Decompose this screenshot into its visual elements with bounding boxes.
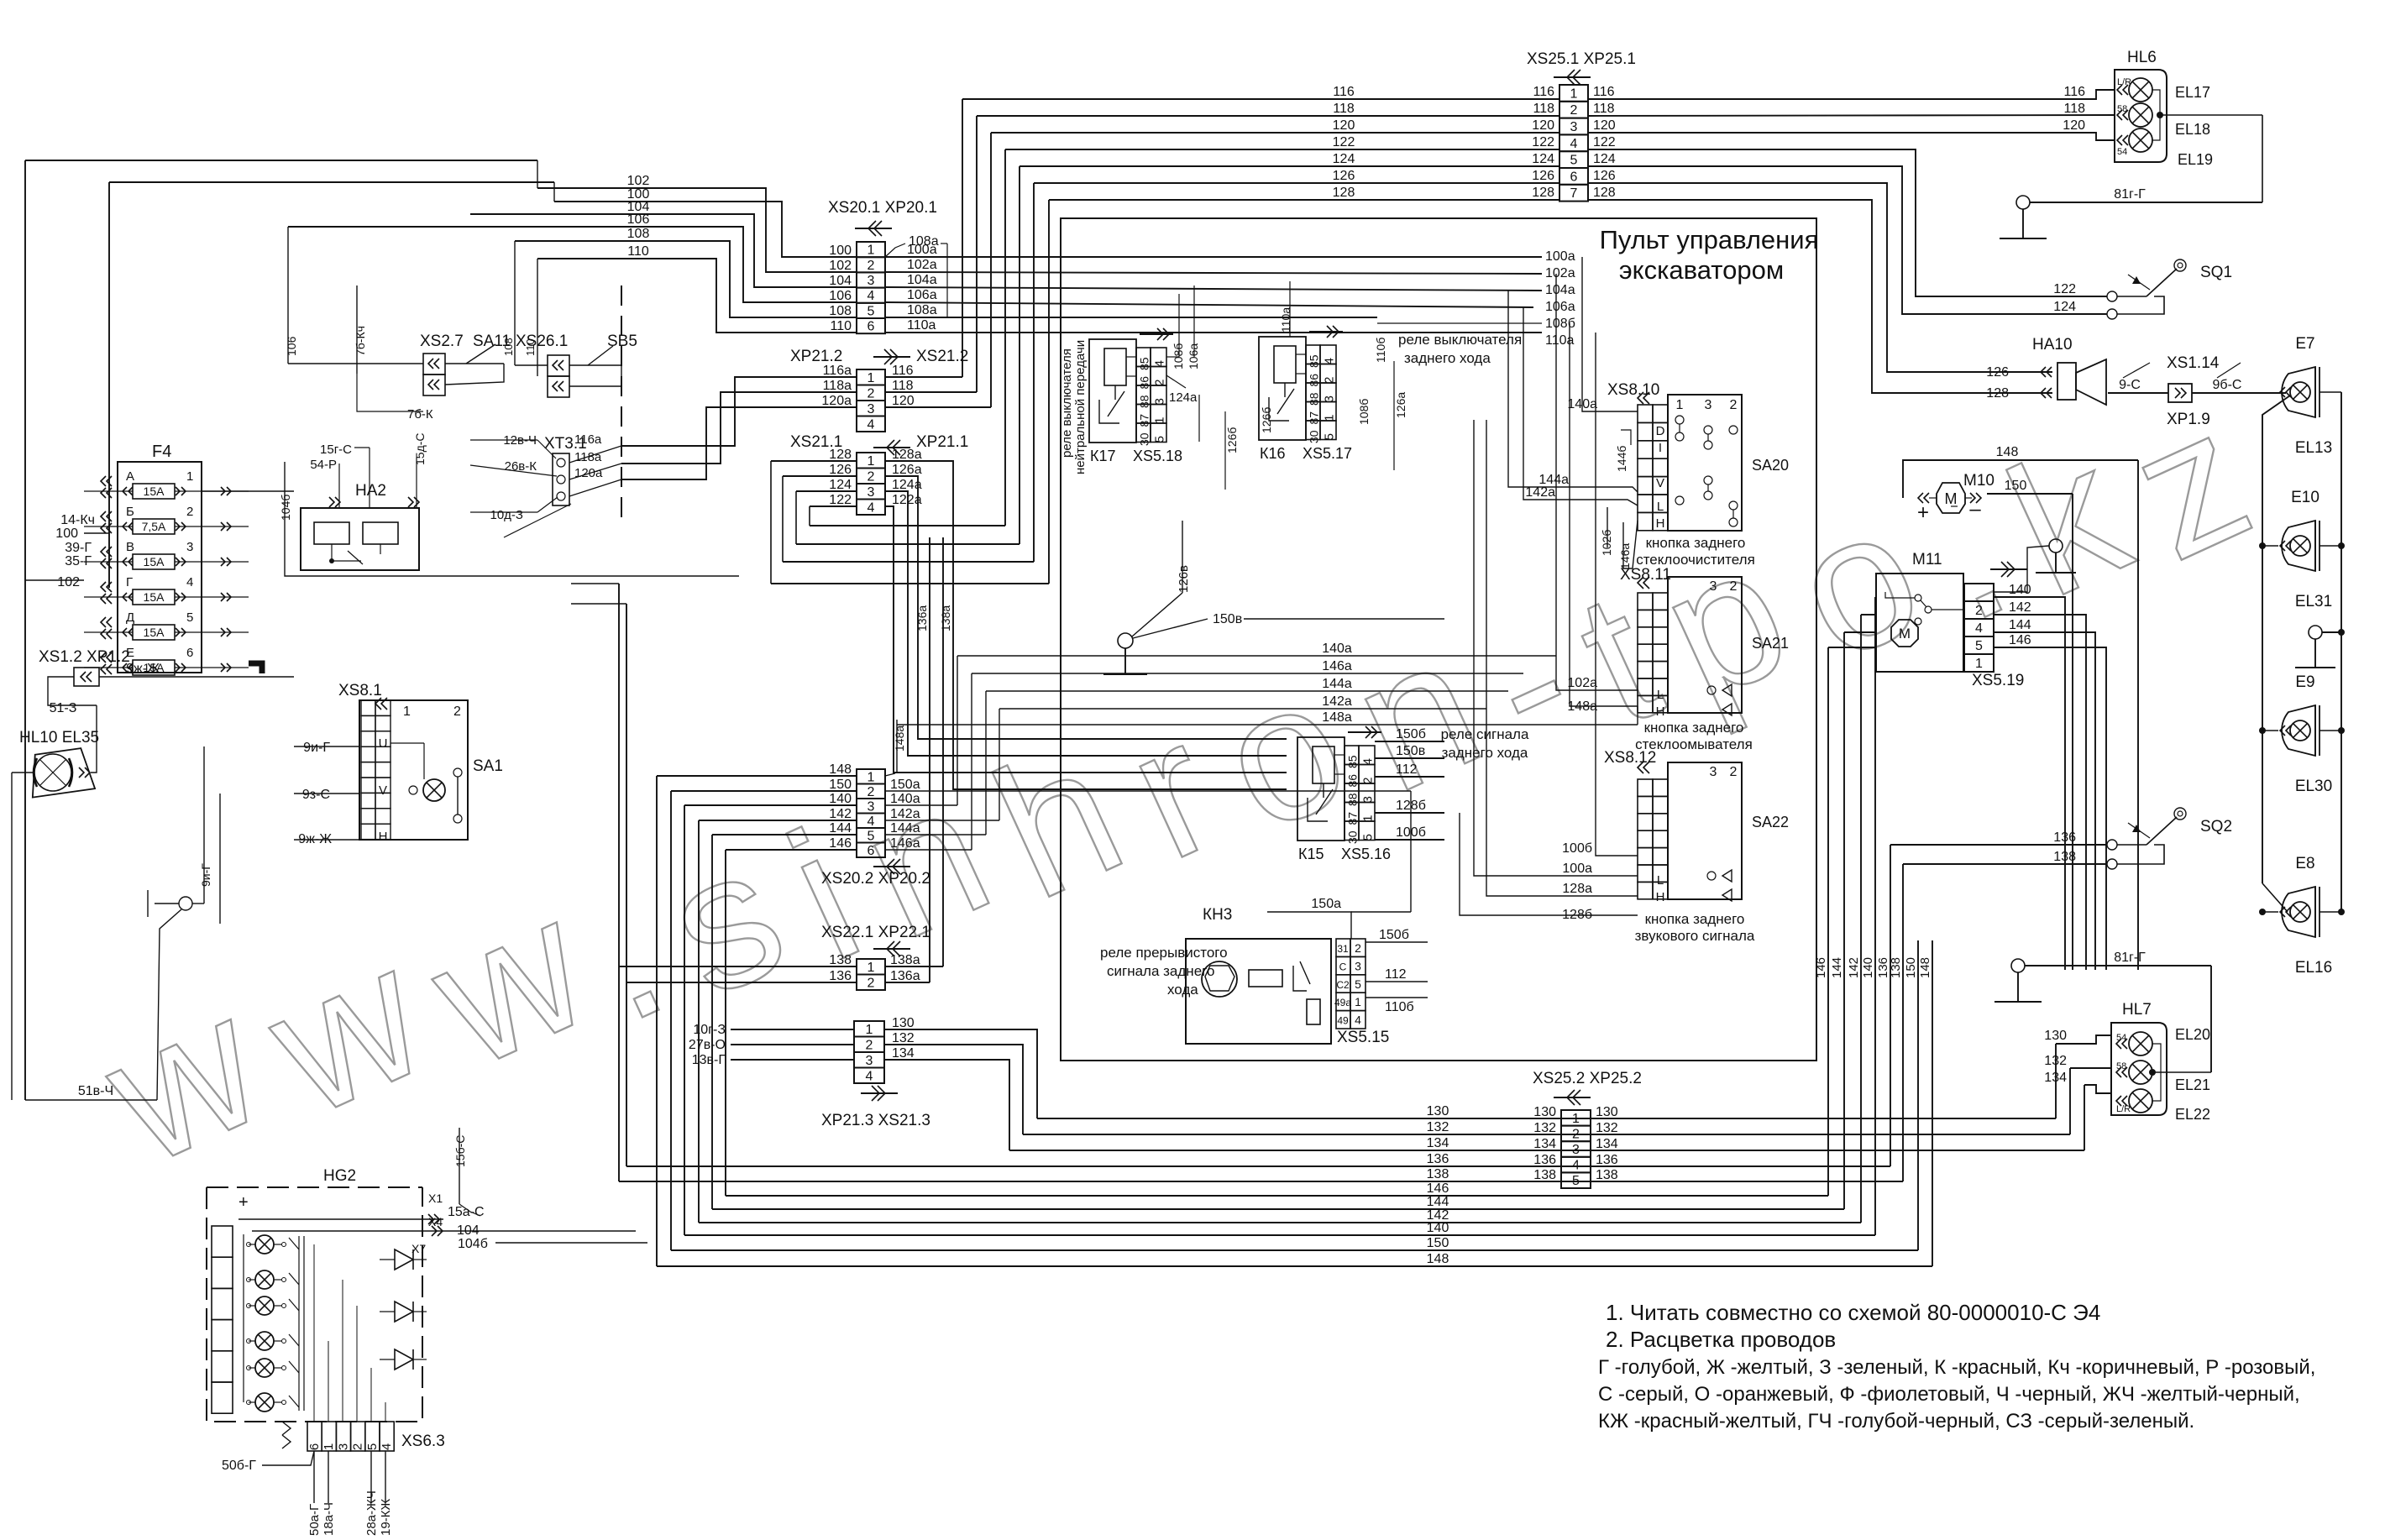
svg-text:3: 3 <box>1570 120 1578 134</box>
svg-text:XS8.10: XS8.10 <box>1607 381 1659 399</box>
svg-text:звукового сигнала: звукового сигнала <box>1635 928 1755 944</box>
svg-text:49а: 49а <box>1334 997 1351 1008</box>
svg-text:118: 118 <box>892 379 914 393</box>
svg-text:3: 3 <box>868 799 875 814</box>
svg-text:1: 1 <box>868 371 875 385</box>
svg-text:6: 6 <box>307 1443 322 1450</box>
svg-text:M10: M10 <box>1963 472 1994 490</box>
svg-text:15А: 15А <box>144 485 165 498</box>
svg-text:H: H <box>1656 890 1665 904</box>
svg-text:5: 5 <box>1361 834 1376 841</box>
svg-text:L: L <box>1657 873 1664 888</box>
svg-text:15а-С: 15а-С <box>448 1205 485 1219</box>
svg-text:SA22: SA22 <box>1752 814 1789 830</box>
svg-text:150а: 150а <box>890 778 920 792</box>
svg-text:130: 130 <box>2044 1029 2067 1043</box>
svg-text:2: 2 <box>868 976 875 990</box>
svg-text:2: 2 <box>868 785 875 799</box>
svg-text:106а: 106а <box>907 288 937 302</box>
svg-text:134: 134 <box>1427 1136 1449 1150</box>
svg-text:2: 2 <box>868 259 875 273</box>
svg-text:81г-Г: 81г-Г <box>2114 951 2146 965</box>
svg-text:104а: 104а <box>907 273 937 287</box>
svg-text:XS5.16: XS5.16 <box>1341 846 1391 862</box>
svg-text:E9: E9 <box>2295 673 2314 691</box>
svg-text:3: 3 <box>868 485 875 500</box>
svg-text:140: 140 <box>1427 1221 1449 1235</box>
svg-text:6: 6 <box>868 320 875 334</box>
svg-text:128а: 128а <box>1562 882 1592 896</box>
svg-text:126в: 126в <box>1177 565 1191 593</box>
svg-text:15А: 15А <box>144 590 165 604</box>
svg-text:118: 118 <box>2063 102 2085 116</box>
svg-text:130: 130 <box>1596 1105 1618 1119</box>
svg-text:148а: 148а <box>1322 710 1352 725</box>
svg-text:EL16: EL16 <box>2295 959 2332 977</box>
svg-text:58: 58 <box>2116 1061 2126 1071</box>
svg-text:138а: 138а <box>939 605 952 631</box>
svg-text:138: 138 <box>1427 1167 1449 1181</box>
svg-text:3: 3 <box>1710 579 1717 594</box>
svg-text:5: 5 <box>1975 639 1983 653</box>
svg-text:КН3: КН3 <box>1203 906 1232 924</box>
svg-text:85: 85 <box>1346 755 1360 768</box>
svg-text:124: 124 <box>1333 152 1355 166</box>
svg-text:5: 5 <box>1570 154 1578 168</box>
svg-text:128: 128 <box>1333 186 1355 200</box>
svg-text:10г-З: 10г-З <box>693 1023 726 1037</box>
svg-text:7,5А: 7,5А <box>142 520 166 533</box>
svg-text:5: 5 <box>186 610 193 625</box>
svg-text:146а: 146а <box>890 836 920 851</box>
svg-text:M11: M11 <box>1912 551 1942 568</box>
svg-text:15А: 15А <box>144 555 165 568</box>
svg-text:54: 54 <box>2116 1033 2126 1043</box>
svg-text:HL10 EL35: HL10 EL35 <box>19 729 99 746</box>
svg-text:102а: 102а <box>1567 676 1597 690</box>
svg-text:100а: 100а <box>1545 249 1575 264</box>
svg-text:XS22.1 ХР22.1: XS22.1 ХР22.1 <box>821 924 930 941</box>
svg-text:104б: 104б <box>279 495 292 521</box>
svg-text:87: 87 <box>1138 414 1151 427</box>
svg-text:Д: Д <box>126 610 134 625</box>
svg-text:140: 140 <box>1861 957 1875 978</box>
svg-text:49: 49 <box>1337 1015 1349 1027</box>
svg-text:кнопка заднего: кнопка заднего <box>1644 720 1744 736</box>
svg-text:120а: 120а <box>574 466 603 480</box>
svg-text:150а: 150а <box>1311 897 1341 911</box>
svg-text:XS8.12: XS8.12 <box>1604 749 1656 767</box>
svg-text:128: 128 <box>829 448 852 462</box>
svg-text:128: 128 <box>1986 386 2009 401</box>
svg-text:116: 116 <box>1333 85 1355 99</box>
svg-text:124: 124 <box>1532 152 1554 166</box>
svg-text:L: L <box>1657 500 1664 514</box>
svg-text:1: 1 <box>1975 657 1983 671</box>
svg-text:2: 2 <box>1355 941 1361 955</box>
svg-text:XS6.3: XS6.3 <box>401 1433 445 1450</box>
svg-text:реле прерывистого: реле прерывистого <box>1100 945 1228 961</box>
svg-text:10д-З: 10д-З <box>490 508 524 522</box>
svg-text:132: 132 <box>1596 1121 1618 1135</box>
svg-text:кнопка заднего: кнопка заднего <box>1645 911 1745 927</box>
svg-text:140а: 140а <box>890 792 920 806</box>
svg-text:30: 30 <box>1346 830 1360 844</box>
svg-text:136: 136 <box>2053 830 2076 845</box>
svg-text:86: 86 <box>1138 376 1151 390</box>
svg-text:H: H <box>1656 516 1665 531</box>
svg-text:132: 132 <box>1427 1120 1449 1134</box>
svg-text:2: 2 <box>868 469 875 484</box>
svg-text:120а: 120а <box>821 394 852 408</box>
svg-text:146: 146 <box>2009 633 2031 647</box>
svg-text:15г-С: 15г-С <box>320 443 352 457</box>
svg-text:19-КЖ: 19-КЖ <box>379 1499 393 1536</box>
svg-text:+: + <box>238 1193 249 1212</box>
svg-text:Г -голубой, Ж -желтый, З -зе: Г -голубой, Ж -желтый, З -зеленый, К -кр… <box>1598 1356 2315 1379</box>
svg-text:130: 130 <box>1533 1105 1556 1119</box>
svg-text:106а: 106а <box>1187 343 1200 369</box>
svg-text:XS5.19: XS5.19 <box>1972 672 2024 689</box>
svg-text:XS21.2: XS21.2 <box>916 348 968 365</box>
svg-text:5: 5 <box>365 1443 380 1450</box>
svg-text:+: + <box>1917 501 1929 524</box>
svg-text:124: 124 <box>829 478 852 492</box>
svg-text:2. Расцветка проводов: 2. Расцветка проводов <box>1606 1327 1836 1352</box>
svg-text:150б: 150б <box>1396 727 1426 741</box>
svg-text:1: 1 <box>1355 995 1361 1008</box>
svg-text:XS25.2 XP25.2: XS25.2 XP25.2 <box>1533 1070 1642 1087</box>
svg-text:104: 104 <box>829 274 852 288</box>
svg-text:102б: 102б <box>1600 530 1613 556</box>
svg-text:9б-С: 9б-С <box>2213 378 2242 392</box>
svg-text:108а: 108а <box>907 303 937 317</box>
svg-text:116: 116 <box>1593 85 1615 99</box>
svg-text:27в-О: 27в-О <box>689 1038 726 1052</box>
svg-text:146: 146 <box>1427 1181 1449 1196</box>
svg-text:HL7: HL7 <box>2122 1001 2152 1019</box>
svg-text:85: 85 <box>1138 357 1151 370</box>
svg-text:15д-С: 15д-С <box>413 432 427 465</box>
svg-text:EL13: EL13 <box>2295 439 2332 457</box>
svg-text:130: 130 <box>1427 1104 1449 1118</box>
svg-text:126: 126 <box>1333 169 1355 183</box>
svg-text:124а: 124а <box>1169 390 1198 405</box>
svg-text:124: 124 <box>2053 300 2076 314</box>
svg-text:ХР21.1: ХР21.1 <box>916 433 968 451</box>
svg-text:4: 4 <box>868 289 875 303</box>
svg-text:126: 126 <box>1593 169 1616 183</box>
svg-text:4: 4 <box>380 1443 394 1450</box>
svg-text:С2: С2 <box>1336 979 1350 991</box>
svg-text:118: 118 <box>1533 102 1554 116</box>
svg-text:54-Р: 54-Р <box>310 458 337 472</box>
svg-text:108: 108 <box>627 227 650 241</box>
svg-text:кнопка заднего: кнопка заднего <box>1646 535 1746 551</box>
svg-text:30: 30 <box>1138 432 1151 446</box>
svg-text:X7: X7 <box>411 1242 426 1255</box>
svg-text:138: 138 <box>1889 957 1903 978</box>
svg-text:116: 116 <box>1533 85 1554 99</box>
svg-text:126а: 126а <box>1394 392 1407 418</box>
svg-text:39-Г: 39-Г <box>65 541 92 555</box>
svg-text:110: 110 <box>627 244 649 259</box>
svg-text:H: H <box>379 830 388 844</box>
svg-text:142а: 142а <box>890 807 920 821</box>
svg-text:148а: 148а <box>893 725 906 752</box>
svg-text:126: 126 <box>1532 169 1554 183</box>
svg-text:экскаватором: экскаватором <box>1619 255 1784 285</box>
svg-text:138: 138 <box>829 953 852 967</box>
svg-text:1: 1 <box>322 1443 336 1450</box>
svg-text:134: 134 <box>1596 1137 1618 1151</box>
svg-text:сигнала заднего: сигнала заднего <box>1107 963 1214 979</box>
svg-text:138: 138 <box>2053 850 2076 864</box>
svg-text:SA1: SA1 <box>473 757 503 775</box>
svg-text:150: 150 <box>2005 479 2027 493</box>
svg-text:102: 102 <box>57 575 80 589</box>
svg-text:100: 100 <box>829 244 852 258</box>
svg-text:142а: 142а <box>1322 694 1352 709</box>
svg-text:140а: 140а <box>1322 642 1352 656</box>
svg-text:110: 110 <box>524 338 537 356</box>
svg-text:138: 138 <box>1596 1168 1618 1182</box>
svg-text:–: – <box>1969 498 1981 521</box>
svg-text:108а: 108а <box>909 234 939 249</box>
svg-text:2: 2 <box>1975 604 1983 618</box>
svg-text:2: 2 <box>1572 1127 1580 1141</box>
svg-text:M: M <box>1945 490 1958 507</box>
svg-text:148: 148 <box>829 762 852 777</box>
svg-text:3: 3 <box>336 1443 350 1450</box>
svg-text:XS20.1 XP20.1: XS20.1 XP20.1 <box>828 199 937 217</box>
svg-text:1: 1 <box>1572 1112 1580 1126</box>
svg-text:85: 85 <box>1308 354 1321 368</box>
svg-text:В: В <box>126 540 134 554</box>
svg-text:M: M <box>1899 626 1911 642</box>
svg-text:138а: 138а <box>890 953 920 967</box>
svg-text:118а: 118а <box>574 450 602 464</box>
svg-text:1: 1 <box>868 770 875 784</box>
svg-text:118: 118 <box>1593 102 1615 116</box>
svg-text:XS25.1 XP25.1: XS25.1 XP25.1 <box>1527 50 1636 68</box>
svg-text:SA21: SA21 <box>1752 635 1789 652</box>
svg-text:4: 4 <box>866 1069 873 1083</box>
svg-text:116а: 116а <box>823 364 852 378</box>
svg-text:1: 1 <box>868 244 875 258</box>
svg-text:108б: 108б <box>1357 399 1371 425</box>
svg-text:142: 142 <box>2009 600 2031 615</box>
svg-text:118а: 118а <box>823 379 852 393</box>
svg-text:86: 86 <box>1346 774 1360 788</box>
svg-text:EL19: EL19 <box>2178 151 2213 168</box>
svg-text:К16: К16 <box>1260 445 1286 462</box>
svg-text:120: 120 <box>1532 118 1554 133</box>
svg-text:126б: 126б <box>1225 427 1239 453</box>
svg-text:XS5.18: XS5.18 <box>1133 448 1182 464</box>
svg-text:EL21: EL21 <box>2175 1076 2210 1093</box>
svg-text:134: 134 <box>892 1046 915 1061</box>
svg-text:118: 118 <box>1333 102 1355 116</box>
svg-text:144а: 144а <box>890 821 920 835</box>
svg-text:15А: 15А <box>144 626 165 639</box>
svg-text:1: 1 <box>1570 86 1578 101</box>
svg-text:100б: 100б <box>1562 841 1592 856</box>
svg-text:XS1.14: XS1.14 <box>2167 354 2220 372</box>
svg-text:4: 4 <box>1570 137 1578 151</box>
svg-text:144а: 144а <box>1322 677 1352 691</box>
svg-text:106: 106 <box>627 212 650 227</box>
svg-text:122: 122 <box>1532 135 1554 149</box>
svg-text:148: 148 <box>1996 445 2019 459</box>
svg-text:150в: 150в <box>1213 612 1242 626</box>
svg-text:7: 7 <box>1570 186 1578 201</box>
svg-text:100а: 100а <box>1562 862 1592 876</box>
svg-text:2: 2 <box>1730 579 1738 594</box>
svg-text:5: 5 <box>1572 1174 1580 1188</box>
svg-text:XS20.2 ХР20.2: XS20.2 ХР20.2 <box>821 870 930 888</box>
svg-text:144: 144 <box>829 821 852 835</box>
svg-text:88: 88 <box>1346 793 1360 806</box>
svg-text:Б: Б <box>126 505 134 519</box>
svg-text:E8: E8 <box>2295 855 2314 872</box>
svg-text:138: 138 <box>1533 1168 1556 1182</box>
svg-text:2: 2 <box>453 705 461 719</box>
svg-text:122а: 122а <box>892 493 922 507</box>
svg-text:5: 5 <box>1153 436 1167 443</box>
svg-text:106: 106 <box>829 289 852 303</box>
svg-text:116а: 116а <box>574 432 602 447</box>
svg-text:С: С <box>1339 961 1347 972</box>
svg-text:1: 1 <box>403 705 411 719</box>
svg-text:Г: Г <box>126 575 133 589</box>
svg-text:87: 87 <box>1308 411 1321 425</box>
svg-text:3: 3 <box>868 402 875 416</box>
svg-text:V: V <box>1656 476 1664 490</box>
svg-text:L: L <box>1657 688 1664 702</box>
svg-text:110а: 110а <box>907 318 936 333</box>
svg-text:136а: 136а <box>915 605 929 631</box>
svg-text:110: 110 <box>830 319 852 333</box>
svg-text:D: D <box>1656 424 1665 438</box>
svg-text:104б: 104б <box>458 1237 488 1251</box>
svg-text:58: 58 <box>2117 104 2127 114</box>
svg-text:50б-Г: 50б-Г <box>222 1459 256 1473</box>
svg-text:EL20: EL20 <box>2175 1026 2210 1043</box>
svg-text:2: 2 <box>868 386 875 401</box>
svg-text:144: 144 <box>2009 618 2031 632</box>
svg-text:2: 2 <box>866 1038 873 1052</box>
svg-text:134: 134 <box>1533 1137 1556 1151</box>
svg-text:3: 3 <box>868 274 875 288</box>
svg-text:150б: 150б <box>1379 928 1409 942</box>
svg-text:3: 3 <box>186 540 193 554</box>
svg-text:2: 2 <box>351 1443 365 1450</box>
svg-text:3: 3 <box>1572 1143 1580 1157</box>
svg-text:SQ1: SQ1 <box>2200 264 2232 281</box>
svg-text:110б: 110б <box>1385 1000 1414 1014</box>
svg-text:SQ2: SQ2 <box>2200 818 2232 835</box>
svg-text:100: 100 <box>55 526 78 541</box>
svg-text:XS5.15: XS5.15 <box>1337 1029 1389 1046</box>
svg-text:14-Кч: 14-Кч <box>60 513 95 527</box>
svg-text:108б: 108б <box>1172 343 1185 369</box>
svg-text:120: 120 <box>1333 118 1355 133</box>
svg-text:54: 54 <box>2117 147 2127 157</box>
svg-text:102а: 102а <box>907 258 937 272</box>
svg-text:102а: 102а <box>1545 266 1575 280</box>
svg-text:2: 2 <box>186 505 193 519</box>
svg-text:126б: 126б <box>1260 407 1273 433</box>
svg-text:V: V <box>379 783 387 798</box>
svg-text:9ж-Ж: 9ж-Ж <box>126 662 160 676</box>
svg-text:120: 120 <box>892 394 915 408</box>
svg-text:реле сигнала: реле сигнала <box>1441 726 1529 742</box>
svg-text:112: 112 <box>1385 967 1407 982</box>
svg-text:120: 120 <box>1593 118 1616 133</box>
svg-text:28а-ЖЧ: 28а-ЖЧ <box>364 1490 379 1536</box>
svg-text:4: 4 <box>1572 1159 1580 1173</box>
svg-text:EL18: EL18 <box>2175 121 2210 138</box>
svg-text:150: 150 <box>829 778 852 792</box>
svg-text:X1: X1 <box>428 1192 443 1205</box>
svg-text:I: I <box>1659 441 1662 455</box>
svg-text:128а: 128а <box>892 448 922 462</box>
svg-text:HL6: HL6 <box>2127 49 2157 66</box>
svg-text:108б: 108б <box>1545 317 1575 331</box>
svg-text:146: 146 <box>829 836 852 851</box>
svg-text:102: 102 <box>627 174 650 188</box>
svg-text:88: 88 <box>1308 392 1321 406</box>
svg-text:5: 5 <box>868 304 875 318</box>
svg-text:А: А <box>126 469 134 484</box>
svg-text:104а: 104а <box>1545 283 1575 297</box>
svg-text:НА2: НА2 <box>355 482 386 500</box>
svg-text:4: 4 <box>868 815 875 829</box>
svg-text:XS2.7: XS2.7 <box>420 333 464 350</box>
svg-text:31: 31 <box>1337 943 1349 955</box>
svg-text:EL31: EL31 <box>2295 593 2332 610</box>
svg-text:заднего хода: заднего хода <box>1442 745 1528 761</box>
svg-text:128: 128 <box>1593 186 1616 200</box>
svg-text:9и-Г: 9и-Г <box>303 741 330 755</box>
svg-text:142: 142 <box>1847 957 1861 978</box>
svg-text:5: 5 <box>1355 977 1361 991</box>
svg-text:реле выключателя: реле выключателя <box>1398 332 1522 348</box>
svg-text:С -серый, О -оранжевый, Ф -ф: С -серый, О -оранжевый, Ф -фиолетовый, Ч… <box>1598 1383 2300 1406</box>
svg-text:4: 4 <box>868 500 875 515</box>
svg-text:нейтральной передачи: нейтральной передачи <box>1073 340 1088 474</box>
svg-text:122: 122 <box>829 493 852 507</box>
svg-text:126: 126 <box>1986 365 2009 380</box>
svg-text:ХР21.2: ХР21.2 <box>790 348 842 365</box>
svg-text:L/R: L/R <box>2116 1104 2131 1114</box>
svg-text:хода: хода <box>1167 982 1198 998</box>
svg-text:9и-Г: 9и-Г <box>199 863 212 887</box>
svg-text:4: 4 <box>868 417 875 432</box>
svg-text:108: 108 <box>829 304 852 318</box>
svg-text:150: 150 <box>1904 957 1918 978</box>
svg-text:146а: 146а <box>1322 659 1352 673</box>
svg-text:К15: К15 <box>1298 846 1324 862</box>
svg-text:E10: E10 <box>2291 489 2319 506</box>
svg-text:140а: 140а <box>1567 397 1597 411</box>
svg-text:51в-Ч: 51в-Ч <box>78 1084 113 1098</box>
svg-text:заднего хода: заднего хода <box>1404 350 1491 366</box>
svg-text:136а: 136а <box>890 969 920 983</box>
svg-text:3: 3 <box>1355 959 1361 972</box>
svg-text:H: H <box>1656 705 1665 719</box>
